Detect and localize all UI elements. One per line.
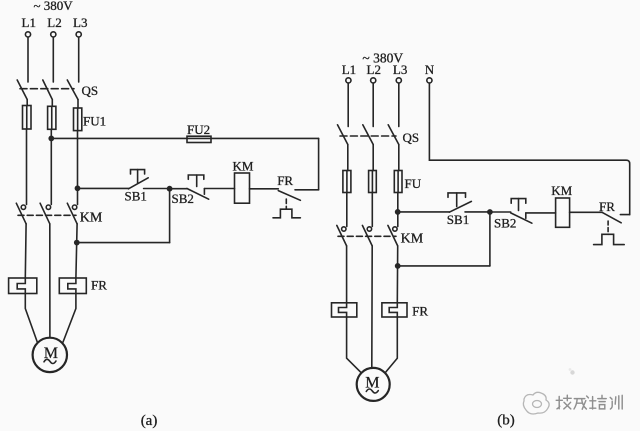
svg-text:(a): (a) [141,413,158,429]
svg-text:M: M [365,375,379,392]
svg-text:(b): (b) [497,412,515,428]
svg-text:L3: L3 [393,62,407,77]
svg-text:SB1: SB1 [447,212,469,227]
svg-text:QS: QS [82,83,99,98]
svg-text:QS: QS [403,130,420,145]
svg-text:M: M [44,345,58,362]
svg-text:KM: KM [80,210,103,225]
svg-text:~ 380V: ~ 380V [34,0,74,13]
svg-text:L1: L1 [342,62,356,77]
svg-text:SB2: SB2 [172,191,194,206]
svg-text:KM: KM [551,183,572,198]
svg-text:FU: FU [405,176,422,191]
svg-text:SB1: SB1 [125,189,147,204]
svg-text:FR: FR [277,173,293,188]
svg-text:L2: L2 [47,15,61,30]
svg-text:FR: FR [599,199,615,214]
svg-text:FR: FR [412,303,428,318]
svg-text:FU2: FU2 [187,122,210,137]
svg-text:KM: KM [233,158,254,173]
svg-text:N: N [425,62,435,77]
svg-text:FU1: FU1 [83,114,106,129]
svg-text:KM: KM [401,232,424,247]
svg-text:L3: L3 [73,15,87,30]
svg-text:FR: FR [91,278,107,293]
svg-text:L2: L2 [367,62,381,77]
svg-text:SB2: SB2 [494,215,516,230]
svg-text:L1: L1 [22,15,36,30]
